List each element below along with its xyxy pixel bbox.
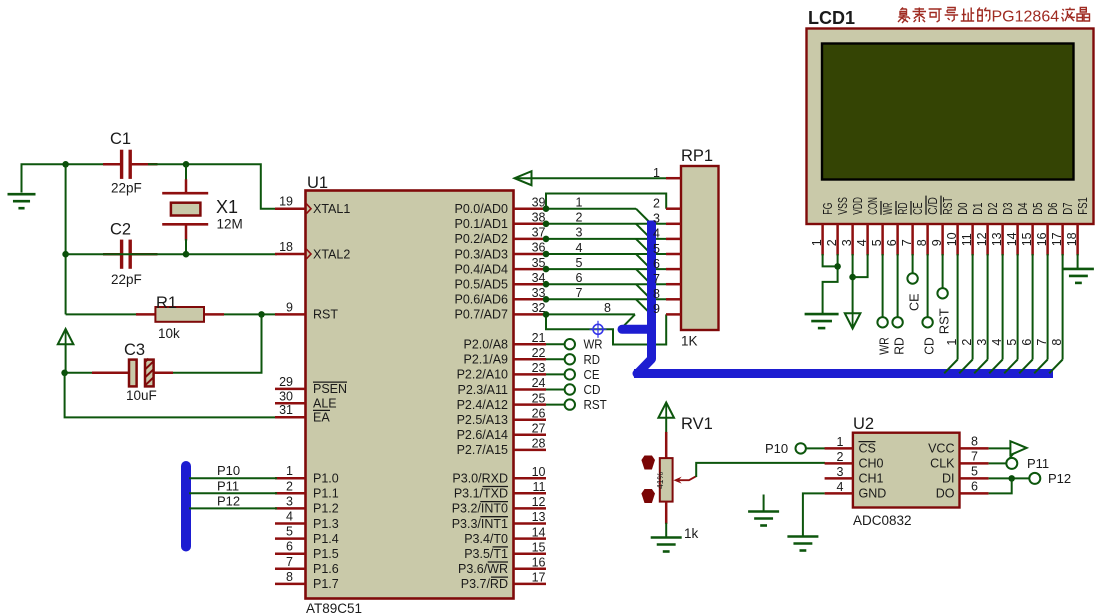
svg-text:P1.3: P1.3 bbox=[313, 517, 339, 531]
wire net 8 bbox=[546, 314, 635, 328]
terminal RD lcd bbox=[892, 317, 902, 327]
terminal RST lcd bbox=[937, 288, 947, 298]
node junction bbox=[62, 251, 69, 258]
node junction bbox=[1008, 475, 1015, 482]
svg-text:D5: D5 bbox=[1030, 203, 1045, 215]
pin 3 (RP1) bbox=[653, 212, 681, 226]
lcd pin 9 (RST) bbox=[930, 196, 955, 256]
wire CD bbox=[927, 254, 929, 317]
svg-text:2: 2 bbox=[960, 339, 974, 346]
svg-text:22: 22 bbox=[532, 346, 546, 360]
lcd pin 15 (D5) bbox=[1020, 203, 1045, 256]
svg-text:VSS: VSS bbox=[835, 197, 850, 215]
lcd pin 4 (CON) bbox=[855, 197, 880, 255]
pin 12 (P3.2/INT0) bbox=[452, 495, 546, 516]
wire WR bbox=[546, 343, 565, 345]
svg-text:7: 7 bbox=[576, 286, 583, 300]
node junction bbox=[543, 266, 550, 273]
pin 2 (CH0) bbox=[825, 450, 884, 471]
svg-text:RD: RD bbox=[895, 203, 910, 215]
svg-text:1: 1 bbox=[286, 464, 293, 478]
svg-text:P3.0/RXD: P3.0/RXD bbox=[452, 472, 508, 486]
pin 31 (EA) bbox=[275, 403, 330, 424]
svg-text:26: 26 bbox=[532, 406, 546, 420]
terminal CE bbox=[565, 369, 575, 379]
pin 7 (RP1) bbox=[653, 272, 681, 286]
svg-text:D7: D7 bbox=[1060, 203, 1075, 215]
pin 33 (P0.6/AD6) bbox=[454, 286, 546, 307]
node junction bbox=[543, 205, 550, 212]
capacitor C3 bbox=[92, 359, 173, 387]
svg-text:CD: CD bbox=[584, 382, 601, 397]
pin 3 (P1.2) bbox=[275, 494, 339, 515]
svg-text:D1: D1 bbox=[970, 203, 985, 215]
pin 5 (DI) bbox=[942, 464, 989, 485]
svg-text:P0.6/AD6: P0.6/AD6 bbox=[454, 293, 508, 307]
svg-text:2: 2 bbox=[653, 197, 660, 211]
node junction bbox=[543, 251, 550, 258]
ground LCD left bbox=[805, 314, 839, 328]
svg-text:28: 28 bbox=[532, 437, 546, 451]
svg-text:10k: 10k bbox=[158, 326, 180, 341]
svg-text:24: 24 bbox=[532, 376, 546, 390]
svg-text:6: 6 bbox=[1020, 339, 1034, 346]
svg-text:18: 18 bbox=[1065, 232, 1079, 246]
origin marker bbox=[590, 321, 607, 338]
svg-text:CH0: CH0 bbox=[859, 457, 884, 471]
wire DI bbox=[989, 477, 1030, 479]
wire bbox=[66, 253, 186, 255]
svg-text:CH1: CH1 bbox=[859, 472, 884, 486]
pin 9 (RP1) bbox=[653, 302, 681, 316]
svg-text:LCD1: LCD1 bbox=[808, 8, 855, 28]
bus P1 bbox=[181, 466, 191, 547]
svg-text:P11: P11 bbox=[217, 478, 239, 493]
svg-text:CE: CE bbox=[584, 367, 600, 382]
node junction bbox=[849, 274, 856, 281]
svg-text:P3.3/INT1: P3.3/INT1 bbox=[452, 517, 508, 531]
svg-text:X1: X1 bbox=[216, 197, 238, 217]
capacitor C1 bbox=[103, 150, 158, 179]
svg-text:2: 2 bbox=[837, 450, 844, 464]
svg-text:RV1: RV1 bbox=[681, 415, 713, 433]
potentiometer RV1 bbox=[655, 432, 696, 524]
wire RD bbox=[897, 254, 899, 317]
wire GND bbox=[803, 493, 825, 537]
svg-text:17: 17 bbox=[532, 571, 546, 585]
svg-text:8: 8 bbox=[971, 434, 978, 448]
wire DO bbox=[989, 478, 1012, 493]
svg-text:WR: WR bbox=[880, 203, 895, 215]
svg-text:P2.7/A15: P2.7/A15 bbox=[457, 443, 508, 457]
svg-text:P1.5: P1.5 bbox=[313, 547, 339, 561]
pin 6 (DO) bbox=[936, 479, 989, 500]
pin 4 (RP1) bbox=[653, 227, 681, 241]
svg-text:3: 3 bbox=[286, 494, 293, 508]
node junction bbox=[61, 370, 68, 377]
svg-text:PG12864: PG12864 bbox=[992, 9, 1060, 26]
svg-text:PSEN: PSEN bbox=[313, 382, 347, 396]
svg-text:CS: CS bbox=[859, 442, 876, 456]
pin 1 (CS) bbox=[825, 435, 876, 456]
svg-text:RD: RD bbox=[584, 352, 601, 367]
lcd LCD1 PG12864 bbox=[807, 29, 1094, 225]
svg-text:U1: U1 bbox=[307, 174, 328, 192]
svg-text:AT89C51: AT89C51 bbox=[306, 601, 362, 616]
pin 3 (CH1) bbox=[825, 465, 884, 486]
wire VCC bbox=[989, 447, 1023, 449]
pin 16 (P3.6/WR) bbox=[458, 556, 546, 577]
wire D4 bbox=[1004, 254, 1017, 373]
bus tap bbox=[636, 254, 650, 268]
power terminal RV1 bbox=[658, 403, 674, 418]
svg-text:U2: U2 bbox=[853, 415, 874, 433]
svg-text:FS1: FS1 bbox=[1075, 197, 1090, 215]
svg-text:29: 29 bbox=[279, 375, 293, 389]
label PG12864 title bbox=[898, 8, 1090, 26]
svg-text:P10: P10 bbox=[217, 463, 240, 478]
node junction bbox=[543, 311, 550, 318]
svg-text:P1.0: P1.0 bbox=[313, 472, 339, 486]
bus tap bbox=[636, 299, 650, 313]
svg-text:8: 8 bbox=[604, 301, 611, 315]
lcd pin 13 (D3) bbox=[990, 203, 1015, 256]
svg-text:CE: CE bbox=[907, 293, 922, 311]
pin 25 (P2.4/A12) bbox=[457, 391, 546, 412]
pin 4 (GND) bbox=[825, 480, 887, 501]
wire CD bbox=[546, 389, 565, 391]
svg-text:22pF: 22pF bbox=[111, 272, 142, 287]
pin 13 (P3.3/INT1) bbox=[452, 510, 546, 531]
pin 1 (P1.0) bbox=[275, 464, 339, 485]
wire D1 bbox=[959, 254, 972, 373]
svg-text:10: 10 bbox=[532, 465, 546, 479]
bus tap bbox=[636, 284, 650, 298]
svg-text:P2.4/A12: P2.4/A12 bbox=[457, 398, 508, 412]
svg-text:RP1: RP1 bbox=[681, 147, 713, 165]
svg-text:CD: CD bbox=[922, 337, 937, 355]
svg-text:7: 7 bbox=[1035, 339, 1049, 346]
svg-text:3: 3 bbox=[653, 212, 660, 226]
wire bbox=[66, 313, 138, 315]
svg-text:WR: WR bbox=[584, 337, 603, 352]
svg-text:9: 9 bbox=[930, 239, 944, 246]
svg-text:P12: P12 bbox=[1048, 471, 1071, 486]
svg-text:P3.2/INT0: P3.2/INT0 bbox=[452, 502, 508, 516]
lcd pin 11 (D1) bbox=[960, 203, 985, 256]
svg-text:D2: D2 bbox=[985, 203, 1000, 215]
pin 5 (P1.4) bbox=[275, 525, 339, 546]
svg-text:VCC: VCC bbox=[928, 442, 954, 456]
svg-text:7: 7 bbox=[286, 555, 293, 569]
svg-text:6: 6 bbox=[971, 479, 978, 493]
svg-text:13: 13 bbox=[990, 232, 1004, 246]
svg-text:P0.5/AD5: P0.5/AD5 bbox=[454, 278, 508, 292]
wire bbox=[65, 164, 67, 314]
svg-text:5: 5 bbox=[286, 525, 293, 539]
ground floating bbox=[748, 512, 779, 526]
power terminal VCC bbox=[58, 329, 74, 344]
resistor R1 bbox=[136, 307, 224, 322]
pin 8 (RP1) bbox=[653, 287, 681, 301]
svg-text:XTAL1: XTAL1 bbox=[313, 202, 350, 216]
svg-text:P0.1/AD1: P0.1/AD1 bbox=[454, 217, 508, 231]
pin 36 (P0.3/AD3) bbox=[454, 241, 546, 262]
pin 24 (P2.3/A11) bbox=[457, 376, 546, 397]
svg-text:15: 15 bbox=[1020, 232, 1034, 246]
ground U2 bbox=[787, 537, 818, 551]
wire net 1 bbox=[546, 208, 636, 210]
pin 6 (P1.5) bbox=[275, 540, 339, 561]
svg-text:7: 7 bbox=[971, 449, 978, 463]
wire floating ground stem bbox=[763, 495, 765, 513]
svg-text:RST: RST bbox=[937, 308, 952, 334]
lcd pin 3 (VDD) bbox=[840, 197, 865, 255]
wire CE bbox=[912, 254, 914, 274]
svg-text:3: 3 bbox=[975, 339, 989, 346]
svg-text:ALE: ALE bbox=[313, 397, 337, 411]
pin 11 (P3.1/TXD) bbox=[454, 480, 546, 501]
wire net 2 bbox=[546, 223, 666, 225]
node junction bbox=[62, 161, 69, 168]
svg-text:P0.2/AD2: P0.2/AD2 bbox=[454, 232, 508, 246]
svg-text:P0.7/AD7: P0.7/AD7 bbox=[454, 308, 508, 322]
pin 15 (P3.5/T1) bbox=[464, 540, 546, 561]
pot up button bbox=[641, 456, 655, 470]
lcd pin 1 (FG) bbox=[810, 203, 835, 256]
terminal RD bbox=[565, 354, 575, 364]
pin 27 (P2.6/A14) bbox=[457, 422, 546, 443]
svg-text:16: 16 bbox=[532, 556, 546, 570]
wire CLK bbox=[989, 462, 1007, 464]
wire D2 bbox=[974, 254, 987, 373]
wire RD bbox=[546, 358, 565, 360]
wire CE bbox=[546, 373, 565, 375]
svg-text:P1.2: P1.2 bbox=[313, 502, 339, 516]
svg-text:5: 5 bbox=[653, 242, 660, 256]
svg-text:10: 10 bbox=[945, 232, 959, 246]
svg-text:CON: CON bbox=[865, 197, 880, 215]
pin 10 (P3.0/RXD) bbox=[452, 465, 546, 486]
svg-text:13: 13 bbox=[532, 510, 546, 524]
svg-text:1k: 1k bbox=[684, 526, 699, 541]
svg-text:7: 7 bbox=[900, 239, 914, 246]
svg-text:P2.5/A13: P2.5/A13 bbox=[457, 413, 508, 427]
wire net 1 loop to RP1 pin 2 bbox=[546, 194, 666, 209]
svg-text:4: 4 bbox=[653, 227, 660, 241]
svg-text:4: 4 bbox=[837, 480, 844, 494]
svg-text:41%: 41% bbox=[655, 472, 665, 489]
svg-text:DI: DI bbox=[942, 472, 955, 486]
bus tap bbox=[636, 239, 650, 253]
svg-text:P1.7: P1.7 bbox=[313, 577, 339, 591]
wire D0 bbox=[944, 254, 957, 373]
wire bbox=[22, 164, 106, 192]
pin 21 (P2.0/A8) bbox=[464, 331, 546, 352]
wire CON bbox=[853, 254, 868, 277]
pin 7 (CLK) bbox=[930, 449, 988, 470]
pin 2 (P1.1) bbox=[275, 479, 339, 500]
svg-text:P0.4/AD4: P0.4/AD4 bbox=[454, 262, 508, 276]
terminal WR bbox=[565, 339, 575, 349]
pin 32 (P0.7/AD7) bbox=[454, 301, 546, 322]
bus tap bbox=[636, 269, 650, 283]
svg-text:CE: CE bbox=[910, 202, 925, 215]
svg-text:GND: GND bbox=[859, 487, 887, 501]
pin 28 (P2.7/A15) bbox=[457, 437, 546, 458]
svg-text:18: 18 bbox=[279, 240, 293, 254]
svg-text:1: 1 bbox=[945, 339, 959, 346]
pin 38 (P0.1/AD1) bbox=[454, 211, 546, 232]
svg-text:27: 27 bbox=[532, 422, 546, 436]
svg-text:5: 5 bbox=[1005, 339, 1019, 346]
svg-text:16: 16 bbox=[1035, 232, 1049, 246]
svg-text:RD: RD bbox=[892, 337, 907, 355]
svg-text:2: 2 bbox=[286, 479, 293, 493]
node junction bbox=[183, 251, 190, 258]
svg-text:8: 8 bbox=[915, 239, 929, 246]
svg-text:4: 4 bbox=[990, 339, 1004, 346]
pin 17 (P3.7/RD) bbox=[461, 571, 546, 592]
svg-text:22pF: 22pF bbox=[111, 181, 142, 196]
pin 5 (RP1) bbox=[653, 242, 681, 256]
wire D5 bbox=[1019, 254, 1032, 373]
svg-text:17: 17 bbox=[1050, 232, 1064, 246]
wire bbox=[806, 447, 825, 449]
wire bbox=[665, 418, 667, 434]
svg-text:P12: P12 bbox=[217, 493, 240, 508]
pin 14 (P3.4/T0) bbox=[464, 525, 546, 546]
power terminal VCC right bbox=[1009, 441, 1027, 459]
lcd pin 8 (C/D) bbox=[915, 196, 940, 256]
wire net 5 bbox=[546, 268, 666, 270]
svg-text:12: 12 bbox=[532, 495, 546, 509]
svg-text:8: 8 bbox=[653, 287, 660, 301]
svg-text:9: 9 bbox=[286, 300, 293, 314]
svg-text:10uF: 10uF bbox=[126, 388, 157, 403]
svg-text:6: 6 bbox=[576, 271, 583, 285]
terminal CE lcd bbox=[907, 273, 917, 283]
svg-text:11: 11 bbox=[960, 233, 974, 246]
node junction bbox=[258, 311, 265, 318]
svg-text:P3.4/T0: P3.4/T0 bbox=[464, 532, 508, 546]
pin 6 (RP1) bbox=[653, 257, 681, 271]
wire RST bbox=[546, 404, 565, 406]
wire net 4 bbox=[546, 253, 666, 255]
wire RP1 pin 1 bbox=[517, 177, 666, 179]
svg-text:P3.5/T1: P3.5/T1 bbox=[464, 547, 508, 561]
wire bbox=[172, 314, 262, 372]
svg-text:P11: P11 bbox=[1027, 456, 1049, 471]
svg-text:3: 3 bbox=[576, 226, 583, 240]
node junction bbox=[834, 263, 841, 270]
svg-text:4: 4 bbox=[286, 510, 293, 524]
svg-text:5: 5 bbox=[576, 256, 583, 270]
svg-text:14: 14 bbox=[1005, 232, 1019, 246]
svg-text:15: 15 bbox=[532, 540, 546, 554]
svg-text:2: 2 bbox=[825, 239, 839, 246]
svg-text:P2.3/A11: P2.3/A11 bbox=[457, 383, 508, 397]
svg-text:ADC0832: ADC0832 bbox=[853, 513, 912, 528]
svg-text:2: 2 bbox=[576, 211, 583, 225]
svg-text:1: 1 bbox=[810, 239, 824, 246]
capacitor C2 bbox=[103, 240, 158, 269]
svg-text:WR: WR bbox=[877, 337, 892, 355]
wire VSS to ground bbox=[823, 254, 838, 314]
pin 1 (RP1) bbox=[653, 166, 681, 180]
pin 4 (P1.3) bbox=[275, 510, 339, 531]
chip U2 ADC0832 bbox=[853, 433, 960, 508]
svg-text:8: 8 bbox=[1050, 339, 1064, 346]
node junction bbox=[543, 296, 550, 303]
svg-text:4: 4 bbox=[855, 239, 869, 246]
svg-text:P1.1: P1.1 bbox=[313, 487, 339, 501]
svg-text:P0.3/AD3: P0.3/AD3 bbox=[454, 247, 508, 261]
pin 26 (P2.5/A13) bbox=[457, 406, 546, 427]
svg-text:C2: C2 bbox=[110, 221, 131, 239]
pin 37 (P0.2/AD2) bbox=[454, 226, 546, 247]
svg-text:R1: R1 bbox=[156, 294, 177, 312]
svg-text:4: 4 bbox=[576, 241, 583, 255]
lcd pin 6 (RD) bbox=[885, 201, 910, 255]
wire RV1 wiper to CH0 bbox=[696, 463, 825, 477]
crystal X1 bbox=[162, 164, 208, 254]
wire P12 bbox=[189, 507, 277, 509]
svg-text:RST: RST bbox=[940, 197, 955, 215]
lcd pin 5 (WR) bbox=[870, 201, 895, 255]
terminal P12 bbox=[1029, 473, 1040, 484]
pin 29 (PSEN) bbox=[275, 375, 347, 396]
lcd pin 17 (D7) bbox=[1050, 203, 1075, 256]
svg-text:6: 6 bbox=[885, 239, 899, 246]
svg-text:P3.6/WR: P3.6/WR bbox=[458, 562, 508, 576]
svg-text:VDD: VDD bbox=[850, 197, 865, 215]
svg-text:DO: DO bbox=[936, 487, 955, 501]
svg-text:XTAL2: XTAL2 bbox=[313, 247, 350, 261]
svg-text:P0.0/AD0: P0.0/AD0 bbox=[454, 202, 508, 216]
svg-text:D0: D0 bbox=[955, 203, 970, 215]
svg-text:C1: C1 bbox=[110, 130, 131, 148]
svg-text:D6: D6 bbox=[1045, 203, 1060, 215]
pin 39 (P0.0/AD0) bbox=[454, 195, 546, 216]
svg-text:8: 8 bbox=[286, 570, 293, 584]
wire bbox=[186, 253, 277, 255]
terminal WR lcd bbox=[877, 317, 887, 327]
svg-text:12M: 12M bbox=[217, 217, 243, 232]
wire D6 bbox=[1034, 254, 1047, 373]
wire net 6 bbox=[546, 283, 666, 285]
pin 22 (P2.1/A9) bbox=[464, 346, 546, 367]
pin 7 (P1.6) bbox=[275, 555, 339, 576]
terminal CD lcd bbox=[922, 317, 932, 327]
lcd pin 7 (CE) bbox=[900, 201, 925, 255]
chip U1 AT89C51 bbox=[306, 191, 514, 599]
terminal CD bbox=[565, 384, 575, 394]
svg-text:6: 6 bbox=[653, 257, 660, 271]
svg-text:1: 1 bbox=[576, 196, 583, 210]
resistor pack RP1 bbox=[681, 166, 719, 330]
svg-text:9: 9 bbox=[653, 302, 660, 316]
svg-text:7: 7 bbox=[653, 272, 660, 286]
wire RST bbox=[942, 254, 944, 288]
wire bbox=[64, 372, 92, 374]
bus tap bbox=[636, 209, 650, 223]
svg-text:C/D: C/D bbox=[925, 197, 940, 215]
wire VDD bbox=[852, 254, 854, 314]
svg-text:P1.4: P1.4 bbox=[313, 532, 339, 546]
left arrow terminal bbox=[515, 171, 532, 185]
pin 34 (P0.5/AD5) bbox=[454, 271, 546, 292]
